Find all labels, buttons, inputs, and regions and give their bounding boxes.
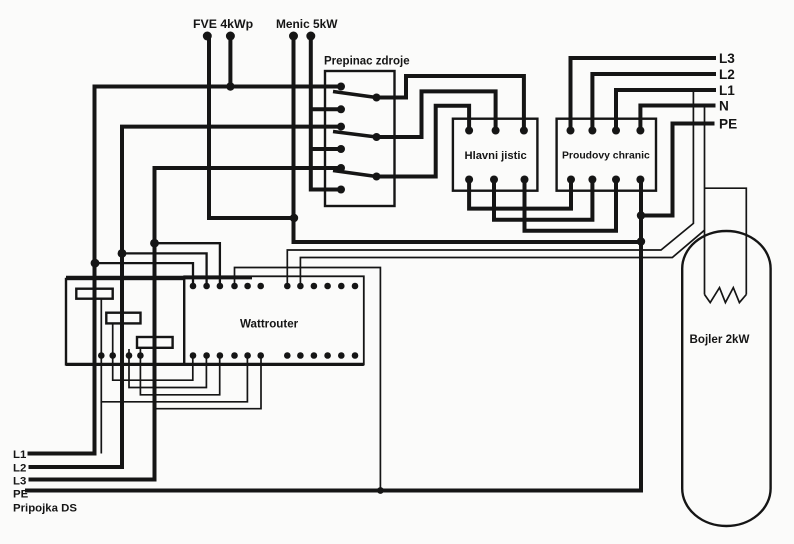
svg-text:Bojler 2kW: Bojler 2kW xyxy=(690,333,750,346)
svg-text:L3: L3 xyxy=(719,51,735,66)
svg-text:L2: L2 xyxy=(719,67,735,82)
svg-text:N: N xyxy=(719,99,729,114)
svg-text:L1: L1 xyxy=(13,449,27,461)
svg-text:Hlavni jistic: Hlavni jistic xyxy=(465,150,527,162)
svg-text:Menic 5kW: Menic 5kW xyxy=(276,17,338,31)
svg-text:Proudovy chranic: Proudovy chranic xyxy=(562,151,650,162)
svg-text:PE: PE xyxy=(719,117,737,132)
svg-text:Prepinac zdroje: Prepinac zdroje xyxy=(324,56,410,68)
svg-text:FVE 4kWp: FVE 4kWp xyxy=(193,17,253,31)
svg-text:Pripojka DS: Pripojka DS xyxy=(13,503,77,515)
svg-text:L1: L1 xyxy=(719,83,735,98)
svg-text:PE: PE xyxy=(13,489,29,501)
svg-text:L2: L2 xyxy=(13,463,26,475)
svg-text:L3: L3 xyxy=(13,476,26,488)
svg-text:Wattrouter: Wattrouter xyxy=(240,318,299,331)
